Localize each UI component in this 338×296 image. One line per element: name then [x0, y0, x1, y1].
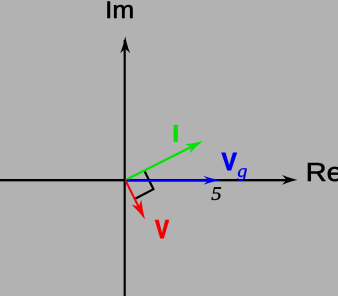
Im axis arrowhead — [120, 36, 130, 53]
label I — [174, 125, 178, 142]
vector I arrowhead — [185, 141, 203, 153]
vector Vg (blue) wire — [126, 180, 213, 182]
label Vg: V — [222, 153, 237, 170]
Re axis arrowhead — [282, 175, 298, 185]
label V — [155, 220, 168, 238]
vector Vg arrowhead — [204, 176, 223, 185]
label Vg: subscript g — [237, 168, 247, 181]
vector V arrowhead — [132, 200, 145, 219]
vector I (green) wire — [126, 145, 197, 181]
label 5 — [212, 187, 222, 200]
label Re — [308, 163, 338, 181]
Re axis (horizontal) — [0, 179, 292, 181]
right-angle marker — [135, 170, 154, 199]
vector V (red) wire — [126, 181, 140, 209]
label Im — [108, 2, 133, 19]
Im axis (vertical) — [124, 40, 126, 296]
